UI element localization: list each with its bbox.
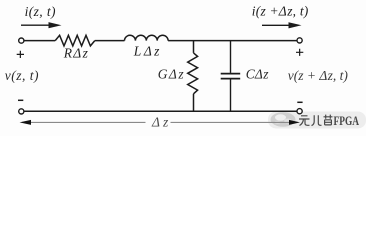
watermark text (stylized CJK strokes + FPGA) — [299, 115, 333, 126]
terminal: top-right open circle — [297, 38, 302, 43]
svg-text:RΔz: RΔz — [63, 46, 89, 61]
resistor RΔz — [55, 35, 95, 46]
wire: resistor to inductor — [95, 40, 125, 42]
bottom wire — [24, 110, 297, 112]
polarity - (bottom-right) — [297, 101, 302, 103]
polarity + (top-left) — [17, 51, 24, 58]
dimension arrowhead left — [20, 120, 32, 125]
polarity + (top-right) — [296, 49, 303, 56]
svg-text:CΔz: CΔz — [246, 67, 269, 82]
dimension line Δz (right segment) — [171, 121, 295, 123]
svg-text:LΔz: LΔz — [133, 44, 162, 59]
watermark badge background — [268, 112, 366, 129]
conductance GΔz shunt branch — [188, 41, 198, 111]
svg-text:v(z, t): v(z, t) — [5, 68, 39, 83]
top wire: left terminal to resistor — [24, 40, 55, 42]
svg-text:i(z +Δz, t): i(z +Δz, t) — [252, 4, 309, 19]
capacitor CΔz shunt branch — [221, 41, 241, 111]
current arrow i(z,t) — [21, 24, 51, 26]
svg-text:v(z + Δz, t): v(z + Δz, t) — [288, 68, 349, 83]
inductor LΔz — [125, 35, 169, 40]
watermark logo blob — [271, 112, 296, 127]
terminal: bottom-left open circle — [19, 109, 24, 114]
svg-text:i(z, t): i(z, t) — [25, 4, 56, 19]
polarity - (bottom-left) — [18, 99, 23, 101]
wire: inductor to right terminal — [168, 40, 297, 42]
svg-text:GΔz: GΔz — [158, 67, 185, 82]
dimension arrowhead right — [289, 120, 300, 125]
dimension line Δz (left segment) — [22, 121, 146, 123]
terminal: top-left open circle — [19, 38, 24, 43]
svg-text:FPGA: FPGA — [334, 113, 360, 128]
terminal: bottom-right open circle — [297, 109, 302, 114]
current arrow i(z+Δz,t) — [262, 24, 291, 26]
